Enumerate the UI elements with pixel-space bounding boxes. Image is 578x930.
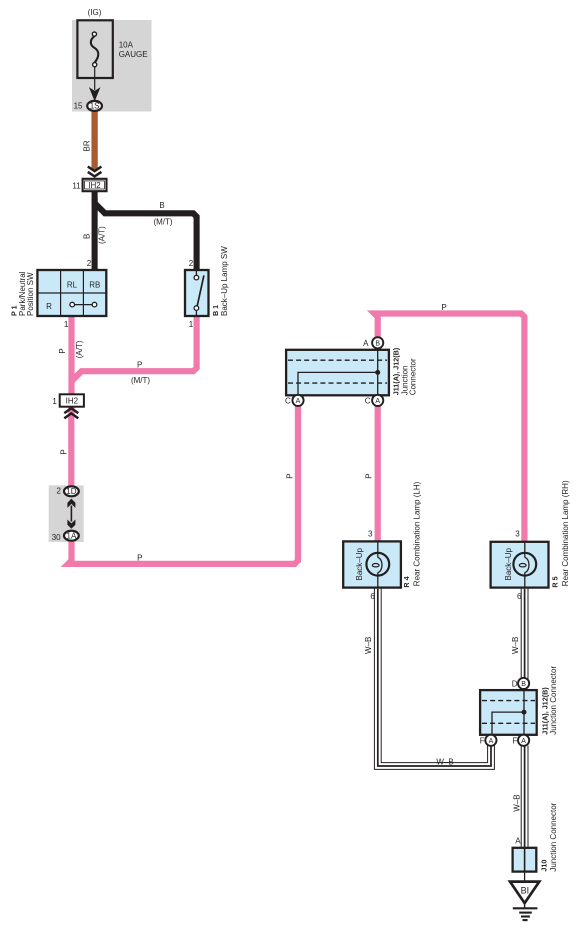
svg-text:R 4: R 4 [402,576,411,587]
svg-text:6: 6 [370,592,375,601]
svg-text:IH2: IH2 [88,181,101,190]
svg-text:2: 2 [56,487,61,496]
svg-text:BI: BI [521,886,530,896]
svg-text:Position SW: Position SW [26,272,35,316]
svg-text:Back–Up Lamp SW: Back–Up Lamp SW [220,246,229,316]
svg-text:A: A [363,339,369,348]
svg-text:P: P [137,360,142,369]
svg-text:Junction Connector: Junction Connector [549,802,558,871]
svg-text:B: B [521,681,526,688]
svg-text:(A/T): (A/T) [75,340,84,358]
svg-text:B 1: B 1 [211,305,220,316]
svg-text:11: 11 [72,181,81,190]
svg-text:IH2: IH2 [66,396,79,405]
svg-text:(M/T): (M/T) [153,218,172,227]
svg-text:P: P [286,473,295,478]
svg-text:F: F [513,736,518,745]
svg-text:Rear Combination Lamp (RH): Rear Combination Lamp (RH) [561,480,570,586]
svg-text:Connector: Connector [409,358,418,395]
svg-text:P: P [58,348,67,353]
svg-text:C: C [285,396,291,405]
svg-text:P: P [59,449,68,454]
svg-text:A: A [375,398,380,405]
svg-text:A: A [515,837,521,846]
svg-text:30: 30 [52,533,61,542]
svg-text:W–B: W–B [511,637,520,654]
svg-text:J10: J10 [540,860,549,872]
svg-text:P: P [364,473,373,478]
svg-text:(IG): (IG) [88,8,102,17]
svg-text:1: 1 [52,397,57,406]
svg-text:RB: RB [89,281,100,290]
svg-text:BR: BR [83,140,92,151]
svg-text:W–B: W–B [512,794,521,811]
svg-text:3: 3 [515,530,520,539]
svg-text:F: F [480,736,485,745]
svg-text:1: 1 [64,320,69,329]
svg-text:15: 15 [74,101,83,110]
svg-text:Back–Up: Back–Up [355,547,364,580]
svg-text:A: A [296,398,301,405]
svg-text:2: 2 [189,259,194,268]
svg-text:J11(A), J12(B): J11(A), J12(B) [392,347,401,395]
svg-text:C: C [365,396,371,405]
svg-text:3: 3 [368,530,373,539]
svg-text:RL: RL [67,281,78,290]
svg-text:B: B [159,201,164,210]
svg-text:R: R [46,302,52,311]
svg-text:2: 2 [87,259,92,268]
svg-text:6: 6 [517,592,522,601]
svg-text:D: D [512,679,518,688]
svg-text:P: P [137,553,142,562]
svg-text:(M/T): (M/T) [131,376,150,385]
svg-text:W–B: W–B [364,637,373,654]
svg-text:1D: 1D [66,487,76,496]
svg-text:10A: 10A [119,40,134,49]
svg-text:Rear Combination Lamp (LH): Rear Combination Lamp (LH) [413,481,422,586]
svg-text:A: A [489,738,494,745]
svg-text:P: P [441,303,446,312]
svg-text:1: 1 [189,320,194,329]
svg-text:B: B [83,234,92,239]
svg-text:1A: 1A [67,532,77,541]
svg-text:A: A [521,738,526,745]
svg-text:W–B: W–B [436,757,453,766]
svg-text:1S: 1S [90,102,100,111]
svg-text:(A/T): (A/T) [97,226,106,244]
svg-text:B: B [375,340,380,347]
svg-text:GAUGE: GAUGE [119,50,148,59]
svg-text:Back–Up: Back–Up [504,547,513,580]
svg-text:R 5: R 5 [551,576,560,587]
svg-text:Junction Connector: Junction Connector [549,666,558,735]
